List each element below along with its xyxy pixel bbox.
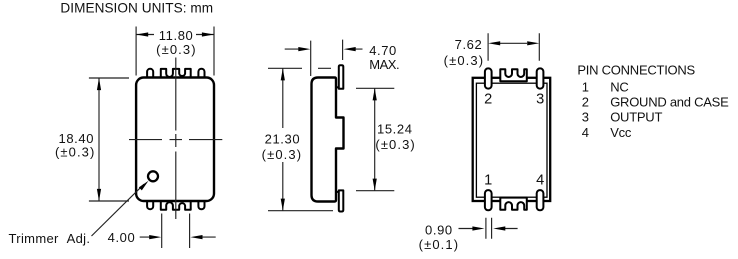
- svg-text:(±0.1): (±0.1): [419, 237, 459, 252]
- dimension 11.80: dimension line with arrows: [136, 34, 214, 36]
- svg-text:2: 2: [484, 91, 492, 107]
- dimension 11.80: extension lines: [136, 27, 214, 76]
- svg-text:3: 3: [536, 91, 544, 107]
- dimension 18.40: extension lines: [89, 78, 129, 201]
- front view vertical centerline: [175, 58, 177, 220]
- front view bottom-left small lead: [147, 201, 153, 209]
- front view bottom-right small lead: [198, 201, 204, 209]
- rear view pad pin1: [485, 190, 492, 210]
- dimension 21.30: extension lines: [268, 68, 333, 210]
- svg-text:4: 4: [582, 125, 589, 140]
- svg-text:3: 3: [582, 110, 589, 125]
- dimension 21.30: dimension line with arrows: [282, 68, 284, 210]
- front view top middle lead group: [161, 69, 191, 78]
- svg-text:PIN CONNECTIONS: PIN CONNECTIONS: [577, 63, 695, 78]
- dimension 4.70: arrows: [285, 48, 363, 50]
- dimension 7.62: dimension line with arrows: [500, 42, 527, 44]
- svg-text:1: 1: [582, 79, 589, 94]
- svg-text:(±0.3): (±0.3): [444, 53, 484, 68]
- front view bottom middle lead group: [161, 201, 191, 210]
- dimension 0.90: arrows: [459, 228, 518, 230]
- svg-text:4.70: 4.70: [369, 43, 397, 58]
- svg-text:(±0.3): (±0.3): [375, 137, 415, 152]
- svg-text:Trimmer Adj.: Trimmer Adj.: [9, 231, 91, 246]
- front view top-right small lead: [198, 69, 204, 78]
- trimmer hole: [148, 171, 158, 181]
- svg-text:21.30: 21.30: [265, 132, 301, 147]
- svg-text:0.90: 0.90: [425, 222, 453, 237]
- dimension 0.90: extension lines: [486, 218, 492, 239]
- dimension 4.00: extension lines: [162, 214, 190, 249]
- rear view top castellation: [500, 69, 527, 81]
- dimension 15.24: extension lines: [356, 88, 394, 190]
- svg-text:MAX.: MAX.: [369, 57, 399, 72]
- svg-text:4.00: 4.00: [108, 230, 136, 245]
- side view body: [312, 78, 344, 202]
- svg-text:15.24: 15.24: [377, 122, 413, 137]
- rear view bottom castellation: [500, 198, 527, 210]
- svg-text:GROUND and CASE: GROUND and CASE: [610, 94, 729, 109]
- rear view pad pin4: [537, 190, 544, 210]
- side view bottom lead: [339, 190, 344, 211]
- svg-text:NC: NC: [610, 79, 628, 94]
- dimension 7.62: extension lines: [488, 33, 539, 61]
- front view top-left small lead: [147, 69, 153, 78]
- rear view pad pin3: [537, 68, 544, 88]
- svg-text:(±0.3): (±0.3): [262, 147, 302, 162]
- svg-text:OUTPUT: OUTPUT: [610, 110, 662, 125]
- svg-text:2: 2: [582, 94, 589, 109]
- svg-text:DIMENSION UNITS: mm: DIMENSION UNITS: mm: [60, 1, 213, 16]
- rear view inner outline: [476, 83, 547, 197]
- rear view outer outline: [473, 78, 551, 201]
- rear view pad pin2: [485, 68, 492, 88]
- svg-text:11.80: 11.80: [159, 28, 194, 43]
- dimension 15.24: dimension line with arrows: [374, 88, 376, 190]
- front view package body: [136, 78, 214, 202]
- dimension 4.70: extension lines: [311, 40, 343, 76]
- trimmer leader line: [92, 184, 145, 236]
- dimension 4.00: arrows: [140, 236, 216, 238]
- dimension 18.40: dimension line with arrows: [98, 78, 100, 201]
- side view top lead: [339, 65, 344, 89]
- front view horizontal centerline: [129, 139, 222, 141]
- svg-text:Vcc: Vcc: [610, 125, 632, 140]
- svg-text:4: 4: [536, 173, 544, 189]
- svg-text:(±0.3): (±0.3): [156, 42, 196, 57]
- svg-text:(±0.3): (±0.3): [55, 145, 95, 160]
- svg-text:7.62: 7.62: [455, 37, 483, 52]
- svg-text:1: 1: [484, 173, 492, 189]
